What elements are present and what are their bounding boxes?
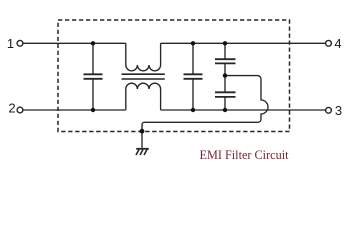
node: ground junction on enclosure xyxy=(140,129,145,134)
capacitor C1 (X-cap, input side) xyxy=(84,43,103,110)
capacitor C3 (Y-cap, upper) xyxy=(215,43,236,75)
wire: choke to terminal 4 (top right) xyxy=(161,42,326,44)
common-mode choke L1: top winding xyxy=(126,43,161,71)
svg-text:4: 4 xyxy=(334,36,341,51)
terminal 1 xyxy=(17,40,23,46)
svg-text:1: 1 xyxy=(7,36,14,51)
svg-text:EMI Filter Circuit: EMI Filter Circuit xyxy=(200,148,289,162)
filter enclosure (dashed box) xyxy=(58,20,290,132)
common-mode choke L1: core xyxy=(122,74,165,79)
node: C4 bottom junction xyxy=(223,108,227,112)
terminal 4 xyxy=(326,40,332,46)
terminal 2 xyxy=(17,107,23,113)
node: C2 top junction xyxy=(191,41,195,45)
node: C3 top junction xyxy=(223,41,227,45)
terminal 3 xyxy=(326,107,332,113)
svg-text:2: 2 xyxy=(8,100,15,115)
capacitor C4 (Y-cap, lower) xyxy=(215,76,236,110)
node: C1 bottom junction xyxy=(91,108,95,112)
ground symbol xyxy=(136,149,149,155)
wire: choke to terminal 3 (bottom right) xyxy=(161,109,326,111)
wire: terminal 2 to choke (bottom left) xyxy=(23,109,126,111)
node: C1 top junction xyxy=(91,41,95,45)
svg-text:3: 3 xyxy=(335,103,342,118)
capacitor C2 (X-cap, output side) xyxy=(184,43,203,110)
common-mode choke L1: bottom winding xyxy=(126,83,161,110)
node: C2 bottom junction xyxy=(191,108,195,112)
wire: Y-cap midpoint to ground (with hop over bottom rail) xyxy=(142,76,268,148)
wire: terminal 1 to choke (top left) xyxy=(23,42,126,44)
node: Y-cap midpoint xyxy=(223,73,227,77)
